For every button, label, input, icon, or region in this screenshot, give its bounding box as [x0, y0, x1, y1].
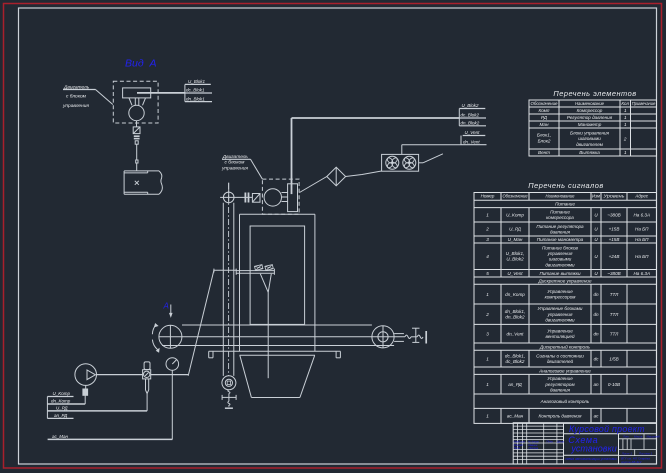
- svg-text:Вытяжка: Вытяжка: [579, 150, 600, 155]
- svg-text:U_РД: U_РД: [56, 406, 68, 411]
- svg-text:ТТЛ: ТТЛ: [610, 312, 619, 317]
- svg-text:U_Blok2: U_Blok2: [506, 257, 524, 262]
- svg-text:dn_Komp: dn_Komp: [505, 292, 525, 297]
- svg-text:Питание вытяжки: Питание вытяжки: [539, 271, 580, 276]
- svg-text:~380В: ~380В: [607, 212, 620, 217]
- svg-text:Вид А: Вид А: [125, 58, 157, 70]
- svg-text:Перечень элементов: Перечень элементов: [553, 89, 636, 98]
- svg-text:управления: управления: [547, 251, 573, 256]
- svg-text:1: 1: [486, 382, 489, 387]
- svg-text:Адрес: Адрес: [634, 193, 648, 198]
- svg-text:Масштаб: Масштаб: [647, 434, 660, 438]
- svg-text:5: 5: [486, 271, 489, 276]
- svg-text:управления: управления: [547, 312, 573, 317]
- svg-text:Кол: Кол: [621, 101, 629, 106]
- svg-text:Питание регулятора: Питание регулятора: [536, 224, 584, 229]
- svg-text:dc_Blok1,: dc_Blok1,: [505, 353, 525, 358]
- svg-text:dn: dn: [593, 331, 599, 336]
- svg-text:ac: ac: [594, 414, 600, 419]
- svg-text:Наименование: Наименование: [546, 193, 575, 198]
- svg-text:Лит.: Лит.: [622, 434, 630, 438]
- svg-text:1: 1: [486, 356, 489, 361]
- svg-text:Управление: Управление: [547, 329, 573, 334]
- svg-text:На БП: На БП: [635, 254, 649, 259]
- svg-text:Питание: Питание: [555, 202, 575, 207]
- svg-text:Примечание: Примечание: [632, 101, 656, 106]
- svg-text:Листов 1: Листов 1: [638, 452, 653, 456]
- svg-text:Блок1,: Блок1,: [537, 133, 551, 138]
- svg-text:Изм: Изм: [592, 193, 600, 198]
- svg-text:U: U: [594, 227, 598, 232]
- svg-text:Пров.: Пров.: [514, 446, 521, 450]
- svg-text:Обозначение: Обозначение: [503, 193, 528, 198]
- svg-text:2: 2: [485, 227, 489, 232]
- svg-text:шаговыми: шаговыми: [549, 257, 572, 262]
- svg-text:Регулятор давления: Регулятор давления: [567, 115, 613, 120]
- svg-text:Контроль давления: Контроль давления: [539, 414, 582, 419]
- svg-text:группа АВ-412: группа АВ-412: [621, 460, 642, 464]
- svg-text:двигателями: двигателями: [545, 262, 575, 267]
- svg-text:Манометр: Манометр: [578, 122, 602, 127]
- svg-text:dn_Blok1,: dn_Blok1,: [505, 309, 525, 314]
- svg-text:~380В: ~380В: [607, 271, 620, 276]
- svg-text:На 6.3А: На 6.3А: [633, 212, 650, 217]
- svg-text:Лист 1: Лист 1: [621, 452, 633, 456]
- svg-text:Управление: Управление: [547, 376, 573, 381]
- svg-text:Управление блоками: Управление блоками: [538, 306, 583, 311]
- svg-text:dc_Blok2: dc_Blok2: [461, 113, 480, 118]
- svg-text:U_Komp: U_Komp: [506, 212, 524, 217]
- svg-text:Блоки управления: Блоки управления: [570, 130, 610, 135]
- svg-text:an_РД: an_РД: [54, 413, 68, 418]
- svg-text:Питание: Питание: [550, 210, 570, 215]
- svg-text:управления: управления: [62, 104, 89, 109]
- svg-text:+15В: +15В: [609, 227, 620, 232]
- svg-text:Компрессор: Компрессор: [577, 108, 603, 113]
- svg-text:1: 1: [486, 292, 489, 297]
- svg-text:2: 2: [485, 312, 489, 317]
- svg-text:двигателей: двигателей: [547, 358, 574, 364]
- svg-text:2: 2: [623, 137, 627, 142]
- svg-text:Управление: Управление: [547, 289, 573, 294]
- svg-text:ТТЛ: ТТЛ: [610, 292, 619, 297]
- svg-text:4: 4: [486, 254, 489, 259]
- svg-text:Подп.: Подп.: [547, 440, 554, 444]
- svg-text:Комп: Комп: [539, 108, 550, 113]
- svg-text:установки: установки: [570, 444, 616, 454]
- svg-text:двигателем: двигателем: [576, 142, 604, 147]
- svg-text:U_РД: U_РД: [509, 227, 522, 232]
- svg-text:1: 1: [624, 150, 627, 155]
- svg-text:dn_Komp: dn_Komp: [51, 399, 71, 404]
- svg-text:Питание манометра: Питание манометра: [537, 237, 584, 242]
- svg-text:1: 1: [486, 212, 489, 217]
- svg-text:dc_Blok1: dc_Blok1: [186, 88, 205, 93]
- svg-text:U_Vent: U_Vent: [507, 271, 523, 276]
- svg-text:Блок2: Блок2: [538, 139, 551, 144]
- svg-text:Уровень: Уровень: [604, 193, 626, 198]
- svg-text:+24В: +24В: [609, 254, 620, 259]
- svg-text:двигателями: двигателями: [545, 317, 575, 322]
- svg-text:Масса: Масса: [634, 434, 643, 438]
- svg-text:U_Komp: U_Komp: [53, 391, 71, 396]
- svg-text:Аналоговое управление: Аналоговое управление: [538, 368, 591, 373]
- svg-text:Курсовой проект: Курсовой проект: [569, 424, 645, 434]
- svg-text:управления: управления: [221, 167, 248, 172]
- svg-text:давления: давления: [550, 229, 571, 234]
- svg-text:dn_Blok2: dn_Blok2: [505, 315, 525, 320]
- svg-text:dc: dc: [594, 356, 600, 361]
- svg-text:Наименование: Наименование: [575, 101, 604, 106]
- svg-text:Аналоговый контроль: Аналоговый контроль: [540, 398, 590, 404]
- svg-text:1: 1: [624, 122, 627, 127]
- svg-text:Дискретный контроль: Дискретный контроль: [539, 343, 591, 349]
- svg-text:U: U: [594, 212, 598, 217]
- svg-text:ac_Ман: ac_Ман: [52, 434, 69, 439]
- svg-text:Сигналы о состоянии: Сигналы о состоянии: [536, 353, 584, 358]
- svg-text:dn_Vent: dn_Vent: [463, 139, 480, 144]
- svg-text:dn_Blok1: dn_Blok1: [186, 96, 205, 101]
- svg-text:На 6.3А: На 6.3А: [633, 271, 650, 276]
- svg-text:компрессора: компрессора: [546, 215, 574, 220]
- svg-text:0-10В: 0-10В: [608, 382, 620, 387]
- svg-text:Перечень сигналов: Перечень сигналов: [528, 181, 603, 190]
- svg-text:dc_Blok2: dc_Blok2: [506, 359, 525, 364]
- svg-text:РД: РД: [541, 115, 548, 120]
- svg-text:U: U: [594, 254, 598, 259]
- svg-text:компрессором: компрессором: [545, 295, 577, 300]
- svg-text:dn: dn: [593, 292, 599, 297]
- svg-text:ac_Ман: ac_Ман: [507, 414, 524, 419]
- svg-text:ТТЛ: ТТЛ: [610, 331, 619, 336]
- svg-text:Питание блоков: Питание блоков: [542, 245, 578, 250]
- svg-text:На БП: На БП: [635, 227, 649, 232]
- svg-text:an: an: [593, 382, 599, 387]
- svg-text:схема автоматизации установки: схема автоматизации установки: [565, 457, 617, 461]
- svg-text:Номер: Номер: [481, 193, 495, 198]
- svg-text:U: U: [594, 271, 598, 276]
- svg-text:регулятором: регулятором: [544, 382, 575, 387]
- svg-text:Ман: Ман: [540, 122, 549, 127]
- svg-text:вентиляцией: вентиляцией: [545, 333, 575, 339]
- svg-text:U_Blok1: U_Blok1: [188, 79, 206, 84]
- svg-text:Дата: Дата: [556, 440, 564, 444]
- svg-text:На БП: На БП: [635, 237, 649, 242]
- svg-text:an_РД: an_РД: [508, 382, 522, 387]
- svg-text:1: 1: [624, 115, 627, 120]
- svg-text:1/5В: 1/5В: [609, 356, 618, 361]
- svg-text:U: U: [594, 237, 598, 242]
- svg-text:+15В: +15В: [609, 237, 620, 242]
- svg-text:1: 1: [486, 414, 489, 419]
- svg-text:U_Ман: U_Ман: [508, 237, 523, 242]
- svg-text:с блоком: с блоком: [66, 94, 87, 100]
- svg-text:Вент: Вент: [538, 150, 550, 155]
- svg-text:U_Blok1,: U_Blok1,: [506, 251, 525, 256]
- svg-text:U_Blok2: U_Blok2: [462, 103, 480, 108]
- svg-text:шаговыми: шаговыми: [578, 136, 601, 141]
- svg-text:Петров: Петров: [529, 446, 539, 450]
- svg-text:U_Vent: U_Vent: [465, 130, 481, 135]
- svg-text:1: 1: [624, 108, 627, 113]
- svg-text:dn_Vent: dn_Vent: [507, 331, 525, 336]
- svg-text:dn: dn: [593, 312, 599, 317]
- svg-text:3: 3: [486, 331, 489, 336]
- svg-text:dn_Blok2: dn_Blok2: [461, 120, 480, 125]
- svg-text:3: 3: [486, 237, 489, 242]
- svg-text:Дискретное управление: Дискретное управление: [537, 278, 591, 283]
- svg-text:с блоком: с блоком: [225, 159, 246, 165]
- svg-text:Обозначение: Обозначение: [531, 101, 558, 106]
- svg-text:А: А: [163, 302, 169, 311]
- svg-text:давления: давления: [550, 387, 571, 392]
